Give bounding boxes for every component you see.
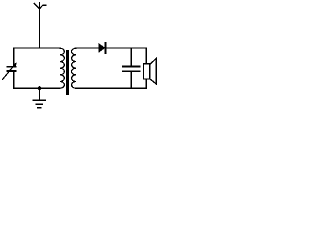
transformer T1 primary coil L1 <box>60 48 65 88</box>
wire: tank left vertical lower <box>13 71 15 88</box>
ground GND bar 3 <box>38 107 41 109</box>
wire: tank top horizontal <box>14 47 60 49</box>
variable capacitor C1 arrow shaft <box>3 65 15 80</box>
speaker LS1 box <box>144 64 150 79</box>
junction dot node GND tap <box>37 86 42 91</box>
capacitor C2 plate 2 <box>123 70 140 72</box>
antenna right arm <box>40 5 46 9</box>
wire: tank bottom horizontal <box>14 87 60 89</box>
variable capacitor C1 plate 2 <box>7 70 16 72</box>
wire: diode to speaker corner <box>106 48 146 64</box>
variable capacitor C1 plate 1 <box>7 66 16 68</box>
capacitor C2 plate 1 <box>123 65 140 67</box>
capacitor C2 stem bottom <box>130 71 132 88</box>
wire: secondary top to diode <box>76 47 99 49</box>
antenna left arm <box>34 4 39 9</box>
variable capacitor C1 arrowhead <box>13 62 17 67</box>
wire: secondary bottom horizontal <box>76 87 146 89</box>
diode D1 triangle <box>98 43 105 53</box>
ground GND bar 2 <box>36 103 42 105</box>
ground GND bar 1 <box>33 99 45 101</box>
wire: ground stem <box>39 88 41 100</box>
diode D1 cathode bar <box>105 43 107 54</box>
capacitor C2 stem top <box>130 48 132 66</box>
transformer T1 secondary coil L2 <box>72 48 76 88</box>
transformer T1 core <box>66 50 69 95</box>
antenna ANT mast <box>39 3 41 49</box>
speaker LS1 horn <box>150 58 156 84</box>
speaker LS1 wire below box <box>145 79 147 88</box>
wire: tank left vertical upper <box>13 48 15 67</box>
